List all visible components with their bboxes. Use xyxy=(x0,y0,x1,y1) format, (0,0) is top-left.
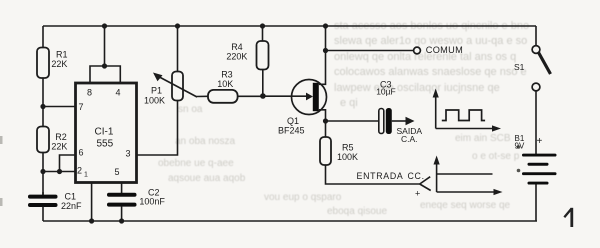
svg-text:sn oa: sn oa xyxy=(178,104,203,115)
svg-text:C.A.: C.A. xyxy=(401,134,418,144)
svg-text:eim ain SCB: eim ain SCB xyxy=(455,133,511,144)
terminal COMUM xyxy=(414,47,421,54)
svg-text:R1: R1 xyxy=(56,50,68,60)
svg-text:555: 555 xyxy=(97,139,114,150)
svg-text:e qi: e qi xyxy=(340,97,358,109)
svg-text:100K: 100K xyxy=(144,96,165,106)
wire pin 6 xyxy=(60,155,77,172)
wire drain to rail xyxy=(319,26,326,84)
node COMUM tap xyxy=(323,48,328,53)
svg-text:100nF: 100nF xyxy=(139,197,165,207)
resistor R1 xyxy=(37,48,49,79)
node pin1 ground xyxy=(89,218,94,223)
waveform icon DC level axes xyxy=(436,163,438,192)
svg-text:1: 1 xyxy=(84,172,88,179)
resistor R4 xyxy=(262,26,264,41)
R2 value label xyxy=(51,132,67,152)
svg-text:S1: S1 xyxy=(514,62,525,72)
svg-text:7: 7 xyxy=(79,102,84,112)
svg-text:22nF: 22nF xyxy=(61,201,82,211)
svg-text:eneqe seq worse qe: eneqe seq worse qe xyxy=(420,200,511,211)
wire pin 5 to C2 xyxy=(121,183,123,193)
node R4 rail xyxy=(260,23,265,28)
svg-text:vou eup o qsparo: vou eup o qsparo xyxy=(264,192,342,203)
wire top supply rail xyxy=(43,25,536,27)
Q1 label xyxy=(278,116,305,136)
B1 value label xyxy=(515,134,543,151)
wire pin 1 to ground rail xyxy=(91,183,93,221)
wire gate to Q1 xyxy=(263,95,307,97)
P1 wiper arrow xyxy=(159,77,198,98)
resistor R2 xyxy=(37,127,49,153)
wire bottom rail xyxy=(43,220,537,222)
node bracket junction xyxy=(102,63,107,68)
svg-text:R2: R2 xyxy=(55,132,67,142)
capacitor C2 xyxy=(107,193,137,207)
C1 value label xyxy=(61,192,82,211)
R3 value label xyxy=(217,70,233,89)
potentiometer P1 xyxy=(172,72,183,101)
svg-text:9V: 9V xyxy=(515,141,525,150)
wire S1 to battery xyxy=(535,91,537,154)
svg-text:P1: P1 xyxy=(151,86,162,96)
terminal ENTRADA chevron xyxy=(420,177,431,184)
svg-text:lawpew esle oscilaqor iucjnsne: lawpew esle oscilaqor iucjnsne qe xyxy=(334,82,500,94)
svg-text:6: 6 xyxy=(79,148,84,158)
svg-text:BF245: BF245 xyxy=(278,126,305,136)
svg-text:22K: 22K xyxy=(51,142,67,152)
svg-text:R5: R5 xyxy=(342,143,354,153)
svg-text:COMUM: COMUM xyxy=(426,45,463,55)
wire SAIDA line to C3 xyxy=(326,120,380,122)
bleed-through ghost text xyxy=(158,20,529,217)
svg-text:CC.: CC. xyxy=(408,171,425,181)
svg-text:an oba nosza: an oba nosza xyxy=(175,136,235,147)
C2 value label xyxy=(139,187,165,206)
R5 value label xyxy=(337,143,358,163)
svg-text:+: + xyxy=(415,189,420,199)
wire pin 2 xyxy=(43,171,76,173)
node pin2 left junction xyxy=(40,169,45,174)
wire COMUM xyxy=(326,50,414,52)
capacitor C3 electrolytic xyxy=(379,109,384,134)
IC CI-1 555 timer xyxy=(76,83,137,183)
resistor R3 xyxy=(197,95,209,97)
svg-text:2: 2 xyxy=(77,166,82,176)
node pin6 junction xyxy=(57,169,62,174)
svg-text:22K: 22K xyxy=(51,59,67,69)
svg-text:colocawos alanwas snaeslose qe: colocawos alanwas snaeslose qe nso e xyxy=(334,66,527,78)
transistor Q1 BF245 xyxy=(292,80,327,115)
svg-text:4: 4 xyxy=(116,88,121,98)
node top rail 555 xyxy=(102,23,107,28)
wire C1 to bottom rail xyxy=(42,207,44,221)
svg-text:3: 3 xyxy=(126,149,131,159)
node P1 rail xyxy=(175,23,180,28)
node R3/R4/gate junction xyxy=(260,93,266,99)
wire P1 top to rail xyxy=(177,26,179,72)
svg-text:10K: 10K xyxy=(217,79,233,89)
waveform icon square wave axes xyxy=(435,96,437,129)
C3 value label xyxy=(376,80,422,145)
svg-text:5: 5 xyxy=(115,167,120,177)
wire C2 to ground rail xyxy=(121,206,123,221)
wire pin 3 output xyxy=(137,101,178,156)
ghost ink specks xyxy=(517,145,521,149)
node pin7 junction xyxy=(40,104,45,109)
wire battery to bottom rail xyxy=(535,185,537,222)
node drain rail xyxy=(323,23,328,28)
wire left rail upper (rail to R1) xyxy=(42,26,44,48)
wire R1 to pin7 node xyxy=(42,78,44,127)
R1 value label xyxy=(51,50,67,70)
node C2 ground xyxy=(119,218,124,223)
svg-text:+: + xyxy=(537,136,543,147)
svg-text:8: 8 xyxy=(87,88,92,98)
wire source down xyxy=(319,110,326,137)
wire R2 to C1 xyxy=(42,153,44,196)
figure number 1 xyxy=(564,208,572,227)
wire supply drop to bracket xyxy=(104,26,106,66)
svg-text:100K: 100K xyxy=(337,152,358,162)
R4 value label xyxy=(226,42,247,61)
node source junction xyxy=(323,118,328,123)
svg-text:eboqa qisoue: eboqa qisoue xyxy=(327,206,387,217)
wire ENTRADA CC xyxy=(326,165,420,184)
battery B1 xyxy=(522,154,557,185)
svg-text:220K: 220K xyxy=(226,52,247,62)
switch S1 xyxy=(535,26,537,46)
svg-text:10µF: 10µF xyxy=(376,86,396,96)
wire pins 8/4 bracket xyxy=(90,66,120,83)
P1 value label xyxy=(144,86,165,106)
svg-text:CI-1: CI-1 xyxy=(95,127,114,138)
svg-text:Q1: Q1 xyxy=(287,116,299,126)
wire C3 to SAIDA arrow xyxy=(392,120,407,122)
wire pin 7 xyxy=(43,106,76,108)
svg-text:obebne ue q-aee: obebne ue q-aee xyxy=(158,158,234,169)
svg-text:ENTRADA: ENTRADA xyxy=(357,171,404,181)
capacitor C1 xyxy=(28,195,58,207)
svg-text:o e ot-se p: o e ot-se p xyxy=(472,151,520,162)
resistor R5 xyxy=(320,137,331,165)
svg-text:aqsoue aua aqob: aqsoue aua aqob xyxy=(168,173,246,184)
